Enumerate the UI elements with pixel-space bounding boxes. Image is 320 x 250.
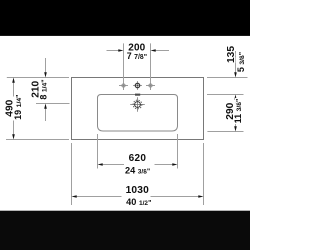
svg-text:135: 135 [226,46,237,63]
svg-text:1030: 1030 [126,185,150,196]
svg-text:620: 620 [129,153,147,164]
